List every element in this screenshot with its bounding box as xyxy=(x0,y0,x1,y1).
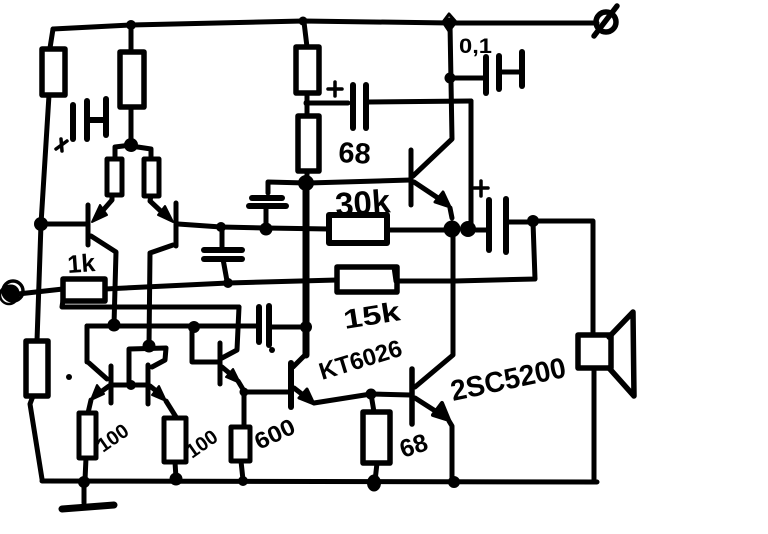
resistor R68a xyxy=(363,412,390,463)
resistor R600 xyxy=(231,427,250,461)
current mirror Q8 base bar xyxy=(109,366,114,403)
node rail / Q7 emitter xyxy=(448,476,460,488)
resistor R100a xyxy=(79,413,96,458)
wire Q2 base to 30k (feedback node) xyxy=(178,224,329,229)
svg-text:0,1: 0,1 xyxy=(459,35,492,58)
wire input-side rail y307 xyxy=(62,300,239,307)
wire C6 down right side xyxy=(469,101,474,224)
wire R68a to rail xyxy=(375,463,377,481)
node C2 top xyxy=(216,222,226,232)
resistor R3 xyxy=(296,47,319,93)
resistor R9 xyxy=(26,341,48,396)
wire C7 to speaker xyxy=(533,221,593,335)
wire Q2 collector xyxy=(149,245,173,346)
wire feedback from output xyxy=(455,222,535,281)
transistor Q6 emitter with arrow xyxy=(294,388,371,404)
node output 2 xyxy=(460,221,476,237)
transistor Q9 emitter with arrow xyxy=(150,386,176,417)
capacitor C6 (68) xyxy=(309,85,471,128)
wire down to R600 xyxy=(242,393,247,427)
wire y326 left drop to Q8 xyxy=(85,326,90,362)
resistor Re2 xyxy=(144,159,159,196)
node junction top rail / R3 xyxy=(299,17,308,26)
wire R100a to rail xyxy=(85,458,86,480)
node x117 / y326 junction xyxy=(108,319,121,332)
node C3 bottom xyxy=(260,223,273,236)
wire input to R 1k xyxy=(18,289,63,294)
transistor Q4 emitter with arrow xyxy=(414,182,452,218)
node rail / R600 xyxy=(238,476,248,486)
node C2 bottom junction xyxy=(223,278,233,288)
node junction top rail / C5 branch xyxy=(443,14,456,31)
resistor R100b xyxy=(164,418,186,462)
wire output node down to Q7 xyxy=(415,233,453,387)
wire mirror bases xyxy=(113,383,146,388)
wire bottom ground rail xyxy=(42,481,597,482)
node C4/x306 junction xyxy=(300,321,312,333)
resistor R 1k xyxy=(63,279,105,301)
polarity + of C7 xyxy=(474,181,488,196)
wire R1 to node A xyxy=(41,95,49,224)
wire speaker to rail xyxy=(592,368,597,482)
wire node A down to R9 xyxy=(37,224,41,341)
wire 1k to 15k xyxy=(105,280,337,289)
resistor R4 xyxy=(298,116,319,171)
wire y327 (C4 feed) xyxy=(87,324,256,329)
terminal output top right xyxy=(594,6,617,36)
polarity + of C6 xyxy=(328,82,342,96)
ink dot left xyxy=(66,374,72,380)
transistor Q5 collector wire xyxy=(222,307,239,358)
transistor Q1 emitter lead with arrow xyxy=(92,195,112,222)
svg-text:15k: 15k xyxy=(341,296,403,335)
node B (emitter supply node) xyxy=(124,138,138,152)
svg-text:68: 68 xyxy=(396,428,431,463)
wire top supply rail xyxy=(53,21,597,29)
svg-text:100: 100 xyxy=(93,420,133,457)
wire Q5 emitter to Q6 base xyxy=(244,390,288,395)
svg-text:1k: 1k xyxy=(66,249,96,279)
transistor Q6 collector diag xyxy=(293,355,305,367)
wire Q4 collector xyxy=(413,24,452,176)
wire Q1 collector xyxy=(91,236,116,325)
terminal input xyxy=(0,281,23,304)
node Q6 emitter / R68a xyxy=(366,389,377,400)
wire Q8 collector diag xyxy=(89,363,107,379)
svg-text:2SC5200: 2SC5200 xyxy=(448,352,569,408)
resistor R1 xyxy=(42,49,65,95)
transistor Q7 base bar xyxy=(409,369,415,424)
node C5 tap xyxy=(445,73,456,84)
node A (left rail junction) xyxy=(34,217,48,231)
resistor R6 (15k) xyxy=(337,267,397,292)
wire Q1 base xyxy=(41,222,88,227)
wire Q5 base xyxy=(192,359,218,362)
wire mirror loop (base to Q9 collector) xyxy=(129,348,166,384)
capacitor C3 xyxy=(249,182,306,226)
wire R3 top lead xyxy=(304,22,307,47)
resistor Re1 xyxy=(107,159,122,195)
node junction top rail / R2 xyxy=(126,20,136,30)
transistor Q4 base bar xyxy=(409,150,414,205)
node E (VAS node) xyxy=(298,175,314,191)
wire R5 to output node xyxy=(387,228,446,233)
node R3/C6 tee xyxy=(304,100,311,107)
node rail / R100b xyxy=(170,473,183,486)
node speaker wire xyxy=(527,215,539,227)
node mirror base xyxy=(126,380,136,390)
wire R2 to node B xyxy=(129,107,134,142)
transistor Q5 base bar xyxy=(218,343,223,384)
transistor Q8 emitter with arrow xyxy=(88,385,109,413)
wire R2 top lead xyxy=(129,25,134,52)
wire left rail upper xyxy=(50,29,53,48)
wire R9 to bottom rail xyxy=(30,396,42,479)
node rail / ground xyxy=(78,476,90,488)
wire R4 to node E xyxy=(305,171,310,180)
wire VAS vertical x306 xyxy=(303,185,310,355)
resistor R2 xyxy=(120,52,144,107)
current mirror Q9 base bar xyxy=(146,365,151,404)
wire node B to Re2 xyxy=(131,146,151,159)
wire R3 to R4 xyxy=(305,93,310,116)
svg-text:30k: 30k xyxy=(334,182,392,223)
svg-text:KT6026: KT6026 xyxy=(316,335,406,386)
polarity mark + near C1 xyxy=(56,139,67,151)
capacitor C4 xyxy=(259,306,303,345)
ground symbol xyxy=(62,482,114,509)
wire R100b to rail xyxy=(175,462,176,478)
node Q5 emitter junction xyxy=(240,388,249,397)
transistor Q1 base bar xyxy=(86,205,91,245)
node loop / diff collector xyxy=(143,340,156,353)
ink dot below C4 xyxy=(269,347,275,353)
svg-text:600: 600 xyxy=(250,413,299,454)
transistor Q5 emitter with arrow xyxy=(222,367,244,391)
capacitor C7 output xyxy=(476,199,528,252)
wire to Q7 base xyxy=(371,394,410,395)
resistor R68a top lead xyxy=(371,394,374,412)
speaker cone xyxy=(609,312,634,396)
speaker box xyxy=(578,335,611,368)
wire R600 to rail xyxy=(241,461,243,480)
transistor Q2 emitter lead with arrow xyxy=(150,196,173,222)
resistor R5 (30k) xyxy=(329,215,387,243)
capacitor C2 xyxy=(204,228,242,281)
transistor Q7 emitter with arrow xyxy=(415,398,452,480)
svg-text:68: 68 xyxy=(338,137,372,171)
capacitor C5 (0,1) xyxy=(454,52,522,93)
transistor Q2 base bar xyxy=(174,203,179,246)
wire node B to Re1 xyxy=(115,145,131,159)
wire node D drop (to Q5 base) xyxy=(188,321,200,359)
node output 1 xyxy=(444,221,461,238)
wire Q4 base xyxy=(308,180,410,183)
node rail / R68a xyxy=(367,475,381,492)
capacitor C1 (floating symbol) xyxy=(73,99,106,139)
transistor Q6 base bar xyxy=(288,363,294,407)
wire feedback to 15k xyxy=(394,267,455,281)
